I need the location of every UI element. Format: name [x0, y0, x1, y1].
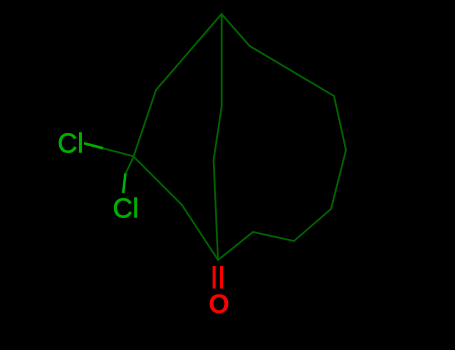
wire: chlorine half of C8-Cl1 bond (bright green)	[84, 143, 103, 148]
wire: skeleton bond P2 to P1 (bottom zigzag)	[253, 232, 294, 241]
wire: carbon half of C8-Cl1 bond (dark green)	[103, 148, 134, 156]
svg-text:Cl: Cl	[113, 193, 139, 224]
wire: skeleton bond R2 to R3	[331, 150, 346, 209]
wire: skeleton bond R1 to R2 (right bulge)	[334, 96, 346, 150]
wire: carbon half of C8-Cl2 bond (dark green)	[126, 157, 134, 174]
wire: skeleton bond B to R1 (long right upper edge)	[250, 46, 334, 96]
wire: C=O double bond (two red parallel lines)	[214, 266, 221, 289]
svg-text:O: O	[209, 289, 230, 319]
wire: skeleton bond C8 to M	[134, 157, 183, 206]
wire: skeleton bond apex A to left bridgehead V1	[156, 14, 222, 90]
wire: skeleton bond K to J	[214, 106, 222, 160]
wire: skeleton bond J down to carbonyl carbon CC	[214, 160, 218, 260]
wire: vertical skeleton bond apex A down to K	[221, 14, 223, 106]
wire: skeleton bond V1 to CCl2 carbon C8	[134, 90, 157, 157]
wire: skeleton bond M to carbonyl carbon CC	[182, 205, 218, 260]
wire: chlorine half of C8-Cl2 bond (bright green)	[123, 174, 125, 194]
wire: skeleton bond R3 to P2	[294, 209, 331, 241]
wire: skeleton bond apex A to right bridgehead B	[222, 14, 250, 46]
svg-text:Cl: Cl	[58, 128, 84, 159]
wire: skeleton bond P1 to carbonyl carbon CC	[218, 232, 253, 260]
